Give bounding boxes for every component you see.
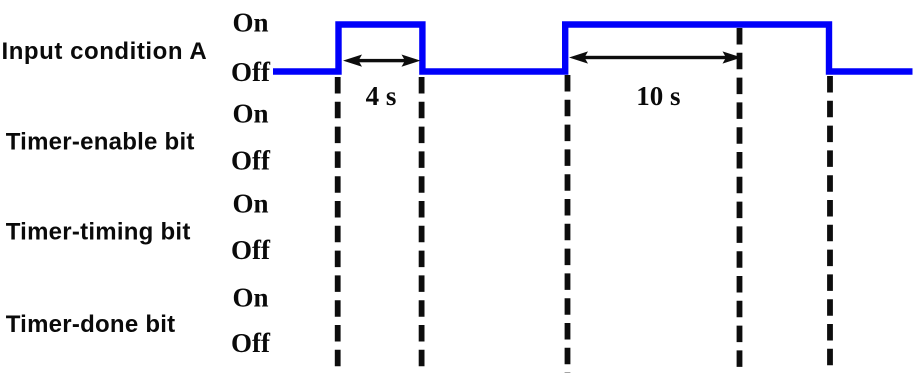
svg-text:Timer-enable bit: Timer-enable bit: [6, 129, 195, 156]
svg-text:On: On: [232, 99, 268, 129]
svg-text:Off: Off: [231, 146, 271, 176]
dashed cursor line 5 (second falling edge): [827, 76, 833, 373]
dashed cursor line 3 (second rising edge): [565, 75, 571, 373]
svg-text:Off: Off: [231, 57, 271, 87]
svg-text:4 s: 4 s: [366, 81, 397, 111]
svg-text:On: On: [232, 188, 268, 218]
dashed cursor line 4 (10 s timeout point): [737, 28, 743, 373]
svg-text:Timer-timing bit: Timer-timing bit: [6, 218, 191, 245]
svg-text:On: On: [232, 8, 268, 38]
svg-text:Off: Off: [231, 235, 271, 265]
svg-text:Timer-done bit: Timer-done bit: [6, 311, 176, 338]
dashed cursor line 1 (first rising edge): [335, 77, 341, 373]
svg-text:Input condition A: Input condition A: [2, 38, 208, 65]
double arrow: 4 s interval: [343, 55, 421, 67]
svg-text:10 s: 10 s: [636, 81, 680, 111]
svg-text:Off: Off: [231, 328, 271, 358]
double arrow: 10 s interval: [569, 51, 742, 63]
dashed cursor line 2 (first falling edge): [419, 77, 425, 373]
svg-text:On: On: [232, 283, 268, 313]
waveform: Input condition A (blue trace): [273, 25, 913, 72]
